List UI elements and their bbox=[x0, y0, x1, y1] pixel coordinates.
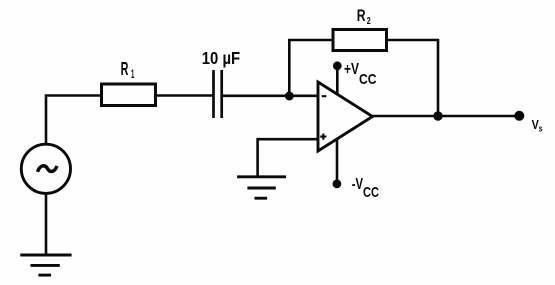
svg-text:R: R bbox=[357, 7, 366, 25]
voltage source V1 bbox=[21, 144, 70, 193]
svg-text:2: 2 bbox=[367, 15, 371, 27]
svg-text:10 µF: 10 µF bbox=[202, 48, 241, 68]
wire non-inverting input to ground bbox=[258, 139, 318, 177]
svg-text:+V: +V bbox=[344, 61, 360, 78]
ground GND1 bbox=[20, 255, 71, 275]
op-amp minus pin mark bbox=[322, 95, 327, 97]
svg-text:CC: CC bbox=[359, 71, 377, 88]
wire output bbox=[373, 115, 520, 118]
resistor R2 bbox=[333, 30, 387, 51]
AC tilde symbol bbox=[38, 166, 58, 172]
terminal +Vcc bbox=[333, 61, 342, 70]
svg-text:R: R bbox=[121, 59, 129, 79]
wire R2 to output node bbox=[387, 40, 439, 116]
svg-text:-V: -V bbox=[352, 176, 364, 193]
svg-text:s: s bbox=[539, 124, 543, 134]
op-amp plus pin mark bbox=[320, 134, 326, 140]
wire feedback left (node A up to R2) bbox=[289, 40, 333, 96]
ground GND2 bbox=[237, 177, 286, 198]
capacitor C1 bbox=[214, 70, 222, 118]
node A (inverting input junction) bbox=[285, 92, 294, 101]
resistor R1 bbox=[102, 84, 156, 106]
terminal Vs bbox=[514, 111, 524, 121]
op-amp U1 bbox=[318, 82, 373, 151]
svg-text:1: 1 bbox=[131, 67, 135, 81]
wire R1 to C1 bbox=[156, 94, 214, 97]
wire -Vcc bbox=[336, 139, 339, 185]
wire +Vcc bbox=[336, 66, 339, 95]
terminal -Vcc bbox=[333, 180, 342, 189]
svg-text:CC: CC bbox=[363, 184, 379, 201]
wire C1 to op-amp inverting input bbox=[222, 95, 318, 98]
node B (output/feedback junction) bbox=[433, 111, 442, 120]
wire source to R1 bbox=[46, 96, 102, 145]
wire source to ground bbox=[45, 193, 48, 255]
